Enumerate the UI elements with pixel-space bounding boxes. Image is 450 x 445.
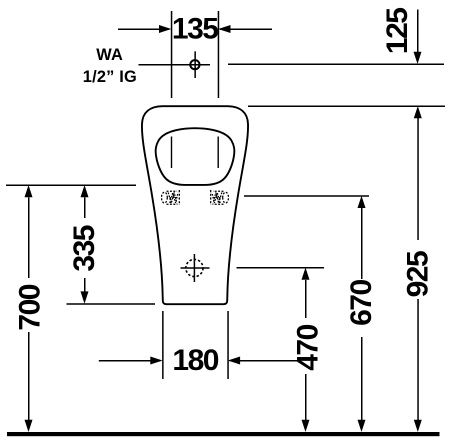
svg-text:670: 670: [345, 280, 378, 326]
svg-text:1/2” IG: 1/2” IG: [83, 68, 137, 86]
svg-text:335: 335: [68, 225, 101, 271]
svg-text:125: 125: [381, 8, 414, 54]
svg-text:925: 925: [402, 251, 435, 297]
svg-text:180: 180: [172, 344, 218, 377]
svg-text:470: 470: [291, 324, 324, 370]
svg-text:700: 700: [14, 284, 47, 330]
svg-text:WA: WA: [96, 46, 123, 64]
svg-text:135: 135: [172, 12, 218, 45]
